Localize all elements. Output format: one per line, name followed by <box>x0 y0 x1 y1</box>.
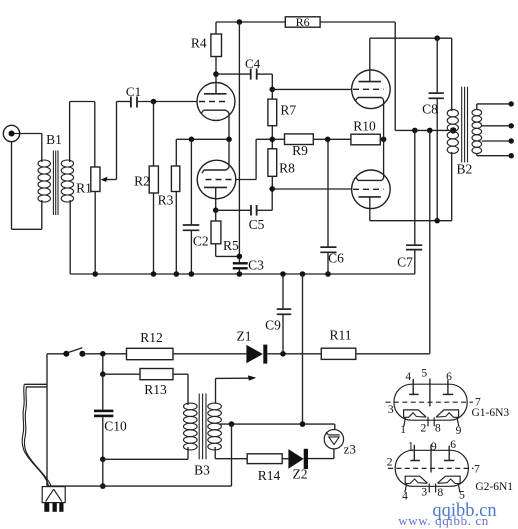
resistor R6 <box>285 17 320 27</box>
svg-text:R7: R7 <box>280 103 296 118</box>
svg-text:Z2: Z2 <box>293 467 308 482</box>
capacitor C7 <box>414 130 416 245</box>
G1 cathode left <box>404 410 427 417</box>
G2 pin 4 <box>405 484 407 493</box>
wire z3 to Z2 <box>333 449 335 459</box>
G2 plate pin 6 <box>444 460 454 462</box>
V2a grid <box>353 88 384 90</box>
V1a grid <box>199 101 229 103</box>
wire R10 to cathodes <box>380 138 383 140</box>
V2a cathode <box>358 97 382 99</box>
G2 centre shield pin 9 <box>430 445 432 473</box>
capacitor C8 <box>436 38 438 93</box>
node R5/C3 junction <box>237 254 243 260</box>
wire rail drop to C3 <box>238 22 240 262</box>
wire V1b grid to divider <box>236 179 256 181</box>
G1 pin 9 <box>457 417 459 426</box>
input jack J1 <box>3 125 19 141</box>
svg-text:1: 1 <box>408 440 414 452</box>
svg-text:9: 9 <box>431 441 437 453</box>
wire top rail <box>216 21 285 23</box>
node C4/R7/V2a-grid <box>270 87 276 93</box>
svg-text:R10: R10 <box>353 119 376 134</box>
transformer B3 secondary winding <box>208 403 222 410</box>
transformer B3 core <box>198 394 200 460</box>
G2 plate pin 1 <box>410 460 419 462</box>
capacitor C4 <box>250 69 252 80</box>
G1 pin 1 <box>404 417 406 426</box>
svg-text:C7: C7 <box>397 255 413 270</box>
svg-text:C5: C5 <box>249 217 265 232</box>
G1 plate pin 4 <box>409 393 418 395</box>
svg-text:C9: C9 <box>265 318 281 333</box>
G1 pin 2 <box>427 417 429 426</box>
svg-text:R5: R5 <box>223 238 239 253</box>
transformer B1 core <box>52 151 54 216</box>
svg-text:5: 5 <box>459 490 465 502</box>
svg-text:3: 3 <box>388 404 394 416</box>
svg-text:3: 3 <box>421 487 427 499</box>
wire R14 to B3 secondary bottom <box>215 458 247 460</box>
capacitor C1 <box>130 97 132 108</box>
G1 grid line pins 3,7 <box>386 401 474 403</box>
svg-text:R13: R13 <box>144 382 167 397</box>
wire B1 secondary top to R1 <box>70 101 95 103</box>
wire C1 to V1a grid <box>138 101 198 103</box>
V1b grid <box>206 179 236 181</box>
transformer B2 secondary winding <box>472 109 482 115</box>
G2 pin 3 <box>428 484 430 493</box>
svg-text:C6: C6 <box>328 251 344 266</box>
wire R13 to B3 primary <box>187 374 189 405</box>
svg-text:C4: C4 <box>245 56 261 71</box>
node C10/mains rail <box>100 483 106 489</box>
tube V2a (output, top) <box>352 70 391 109</box>
wire mains bottom rail <box>47 485 232 487</box>
V2b plate (bottom) <box>359 196 381 198</box>
svg-text:C3: C3 <box>248 258 264 273</box>
lamp z3 <box>324 430 343 449</box>
tube V2b (output, bottom, inverted) <box>352 170 391 209</box>
transformer B1 primary winding <box>41 134 43 163</box>
G1 plate pin 6 <box>443 393 453 395</box>
svg-text:4: 4 <box>405 371 411 383</box>
capacitor C3 (electrolytic) <box>233 262 248 264</box>
wire ground drop to B3 tap <box>302 274 304 424</box>
node R7/R8/R9 divider <box>270 137 276 143</box>
node V1b plate/R5/C5 <box>213 207 219 213</box>
V2a plate <box>359 81 381 83</box>
V1b cathode (top) <box>204 169 226 171</box>
svg-text:R1: R1 <box>76 181 92 196</box>
svg-text:9: 9 <box>456 425 462 437</box>
wire plate to C4 <box>216 73 250 75</box>
wire mains left drop <box>46 354 48 486</box>
svg-text:B1: B1 <box>46 132 62 147</box>
node R8/C5/V2b-grid <box>269 186 275 192</box>
wire B3 heater output with arrow <box>215 378 217 403</box>
ground bus <box>70 273 415 275</box>
wire V2b plate to B2 bottom <box>370 220 452 222</box>
resistor R14 <box>247 454 282 464</box>
capacitor C10 (electrolytic) <box>102 374 104 409</box>
V2b cathode (top) <box>358 179 382 181</box>
G2 pin 8 <box>435 484 437 493</box>
wire Z2 to R14 <box>282 458 288 460</box>
mains cord (twisted pair) <box>24 383 47 385</box>
svg-text:Z1: Z1 <box>237 329 252 344</box>
svg-text:6: 6 <box>450 439 456 451</box>
R1 wiper arrow <box>104 179 117 181</box>
svg-text:C10: C10 <box>104 419 127 434</box>
svg-text:B3: B3 <box>194 463 210 478</box>
transformer B3 primary winding <box>184 403 198 410</box>
wire Z1 to R11 <box>267 353 321 355</box>
wire C4 to grid node <box>257 73 272 75</box>
wire tap to z3 <box>334 424 336 430</box>
diode Z2 <box>304 449 308 469</box>
svg-text:R6: R6 <box>296 15 310 29</box>
resistor R4 <box>215 22 217 34</box>
svg-text:1: 1 <box>400 424 406 436</box>
svg-text:R8: R8 <box>279 161 295 176</box>
G2 cathode left <box>405 476 427 483</box>
wire B3 tap line <box>220 423 335 425</box>
svg-text:7: 7 <box>474 464 480 476</box>
switch S1 <box>63 351 69 357</box>
svg-text:8: 8 <box>435 422 441 434</box>
svg-text:R9: R9 <box>292 143 308 158</box>
wire R6 to B+ <box>394 22 396 130</box>
diode Z1 <box>246 345 263 363</box>
B2 secondary output taps <box>476 104 478 110</box>
resistor R7 <box>271 89 273 99</box>
resistor R12 <box>127 348 174 359</box>
node C1/R2 junction <box>151 99 157 105</box>
V2b grid <box>353 188 384 190</box>
V1b plate (bottom) <box>204 186 227 188</box>
svg-text:z3: z3 <box>344 442 356 457</box>
svg-text:R11: R11 <box>329 328 351 343</box>
resistor R9 <box>285 134 314 145</box>
transformer B2 core <box>461 87 463 163</box>
svg-text:2: 2 <box>387 456 393 468</box>
wire B3 primary bottom <box>103 458 188 460</box>
mains plug <box>42 487 65 503</box>
capacitor C2 <box>190 139 192 225</box>
G1 pin 8 <box>433 417 435 426</box>
wire mains to switch <box>47 353 65 355</box>
svg-text:G1-6N3: G1-6N3 <box>471 407 509 419</box>
capacitor C9 <box>282 274 284 309</box>
svg-text:R12: R12 <box>140 330 163 345</box>
svg-text:5: 5 <box>421 368 427 380</box>
V1a cathode <box>204 109 227 111</box>
wire jack ground drop <box>11 142 13 230</box>
resistor R8 <box>271 139 273 149</box>
svg-text:C2: C2 <box>193 234 209 249</box>
svg-text:4: 4 <box>402 490 408 502</box>
svg-text:B2: B2 <box>457 162 473 177</box>
resistor R13 <box>103 373 140 375</box>
wire B+ down to R11 <box>429 130 431 353</box>
svg-text:2: 2 <box>421 422 427 434</box>
svg-text:6: 6 <box>446 371 452 383</box>
resistor R2 <box>153 102 155 167</box>
tube V1b (6N3 b, inverted) <box>197 160 236 199</box>
node rail/C3 drop <box>237 19 243 25</box>
svg-text:R3: R3 <box>158 193 174 208</box>
tube V1a (6N3 a) <box>197 83 235 121</box>
node C10/B3 bottom <box>100 457 106 463</box>
wire cathode bias line <box>176 138 229 140</box>
resistor R11 <box>321 348 356 359</box>
wire V2a plate to B2 top <box>370 37 452 39</box>
transformer B1 secondary winding <box>69 102 71 163</box>
G2 pin 5 <box>458 484 460 493</box>
capacitor C5 <box>216 209 251 211</box>
svg-text:R2: R2 <box>134 174 150 189</box>
svg-text:R14: R14 <box>258 468 281 483</box>
svg-text:G2-6N1: G2-6N1 <box>475 481 513 493</box>
wire jack to B1 primary <box>14 133 42 135</box>
pinout diagram G2-6N1 envelope <box>395 450 468 486</box>
svg-text:8: 8 <box>437 487 443 499</box>
wire R9 to R10 <box>313 138 351 140</box>
svg-text:www. qqibb. cn: www. qqibb. cn <box>398 513 489 528</box>
G2 cathode right <box>438 476 461 483</box>
node V1a plate junction <box>213 71 219 77</box>
resistor R5 <box>215 210 217 221</box>
node R9/R10/C6 <box>325 137 331 143</box>
V1a plate <box>204 93 227 95</box>
potentiometer R1 <box>94 102 96 168</box>
transformer B2 primary winding <box>451 38 453 111</box>
wire switch node down to R13 <box>102 354 104 374</box>
wire V2b grid feed <box>272 188 352 190</box>
G1 cathode right <box>436 410 459 417</box>
svg-text:R4: R4 <box>191 36 207 51</box>
svg-text:C1: C1 <box>126 84 141 99</box>
resistor R10 <box>351 134 380 145</box>
capacitor C6 <box>327 139 329 247</box>
svg-text:C8: C8 <box>422 102 438 117</box>
resistor R3 <box>175 139 177 166</box>
wire R12 to Z1 <box>173 353 246 355</box>
wire tap return drop <box>231 424 233 486</box>
G1 centre shield pin 5 <box>429 379 431 407</box>
node C9/Z1/R11 <box>280 351 286 357</box>
pinout diagram G1-6N3 envelope <box>394 384 467 420</box>
wire B+ centre-tap line <box>395 129 448 131</box>
wire V2a grid feed <box>272 88 352 90</box>
node switch/C10 <box>100 351 106 357</box>
G2 grid line pins 2,7 <box>388 467 474 469</box>
